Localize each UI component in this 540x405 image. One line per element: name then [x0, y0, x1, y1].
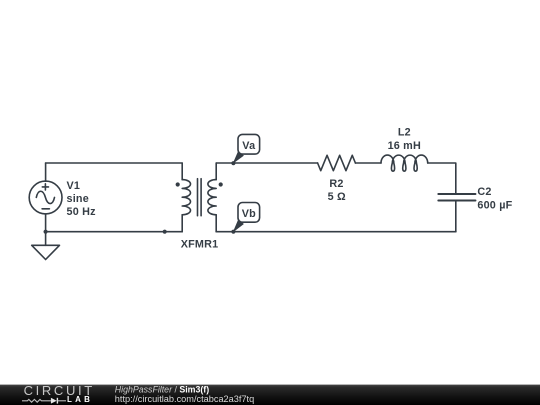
wire top-right: XFMR1 secondary top to R2: [216, 162, 317, 164]
transformer XFMR1: [176, 163, 223, 232]
ground: [32, 232, 60, 260]
capacitor C2: [438, 194, 475, 232]
svg-text:Vb: Vb: [242, 208, 256, 220]
label L2 value: [388, 126, 421, 152]
node junction on bottom-left wire: [163, 230, 167, 234]
CircuitLab logo: resistor zigzag: [22, 399, 51, 402]
svg-text:Va: Va: [242, 140, 256, 152]
node Va flag: [231, 134, 259, 165]
label R2 value: [328, 178, 346, 203]
svg-text:5 Ω: 5 Ω: [328, 191, 346, 203]
svg-text:L2: L2: [398, 126, 411, 138]
svg-text:50 Hz: 50 Hz: [67, 206, 97, 218]
svg-text:R2: R2: [329, 178, 343, 190]
svg-text:HighPassFilter / Sim3(f): HighPassFilter / Sim3(f): [115, 385, 209, 395]
CircuitLab logo: diode: [51, 398, 57, 404]
wire bottom-left segment 1: [46, 231, 165, 233]
wire bottom-left segment 2: [165, 231, 183, 233]
svg-text:LAB: LAB: [67, 395, 93, 404]
node junction at V1 bottom: [44, 230, 48, 234]
voltage source V1: [29, 163, 62, 232]
svg-text:C2: C2: [477, 186, 491, 198]
wire top-left (V1 top to XFMR1 primary top): [46, 162, 183, 164]
svg-text:V1: V1: [67, 180, 81, 192]
resistor R2: [318, 155, 356, 170]
label C2 value: [477, 186, 512, 211]
svg-text:XFMR1: XFMR1: [181, 238, 219, 250]
svg-text:600 µF: 600 µF: [477, 200, 512, 212]
wire R2 to L2: [355, 162, 381, 164]
label V1 value: [67, 180, 97, 218]
svg-text:http://circuitlab.com/ctabca2a: http://circuitlab.com/ctabca2a3f7tq: [115, 394, 254, 404]
wire L2 to C2 corner: [428, 163, 456, 194]
node Vb flag: [231, 203, 259, 234]
svg-text:sine: sine: [67, 193, 89, 205]
inductor L2: [381, 155, 428, 171]
svg-text:16 mH: 16 mH: [388, 140, 421, 152]
wire bottom-right: XFMR1 secondary bottom to C2 bottom: [216, 231, 456, 233]
